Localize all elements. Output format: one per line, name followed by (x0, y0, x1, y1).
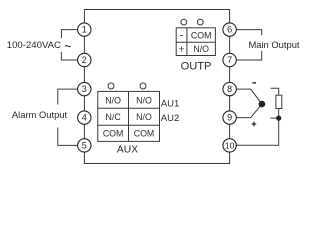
svg-text:N/O: N/O (136, 112, 152, 122)
resistor: RTD sensing element (276, 95, 282, 108)
svg-text:N/C: N/C (106, 112, 122, 122)
svg-text:Main Output: Main Output (248, 39, 299, 50)
terminal 4 (78, 111, 91, 124)
terminal 7 (223, 53, 236, 66)
table: AUX terminal block outline (98, 91, 160, 141)
wire: top jumper from terminal 1 to terminal 6 (84, 10, 229, 30)
svg-text:N/O: N/O (136, 95, 152, 105)
terminal 10 (223, 139, 236, 152)
terminal 9 (223, 111, 236, 124)
terminal 8 (223, 82, 236, 95)
label: - polarity at terminal 8 (252, 82, 256, 84)
wire: thermocouple lead from terminal 8 (236, 89, 262, 104)
svg-text:9: 9 (227, 113, 232, 123)
terminal 6 (223, 23, 236, 36)
svg-text:+: + (179, 45, 185, 56)
wire: bottom jumper from terminal 5 to terminal 10 (84, 145, 229, 163)
svg-text:7: 7 (227, 55, 232, 65)
indicator circle: AUX right (140, 83, 146, 89)
svg-text:N/O: N/O (105, 95, 121, 105)
svg-text:COM: COM (134, 129, 155, 139)
terminal 3 (78, 82, 91, 95)
svg-text:6: 6 (227, 25, 232, 35)
wire: RTD lower lead down to terminal 10 (236, 109, 279, 146)
wire: RTD middle lead stub (270, 117, 278, 119)
indicator circle: AUX left (108, 83, 114, 89)
svg-text:4: 4 (82, 113, 87, 123)
svg-text:COM: COM (191, 30, 212, 40)
svg-text:100-240VAC: 100-240VAC (7, 40, 61, 51)
wire: thermocouple lead from terminal 9 (236, 104, 262, 118)
indicator circle: OUTP right (197, 19, 203, 25)
svg-text:Alarm Output: Alarm Output (12, 109, 68, 120)
indicator circle: OUTP left (181, 19, 187, 25)
svg-text:OUTP: OUTP (181, 60, 212, 72)
label: + polarity at terminal 9 (252, 122, 257, 127)
svg-text:AUX: AUX (117, 145, 138, 156)
svg-text:AU1: AU1 (161, 99, 179, 110)
terminal 1 (78, 23, 91, 36)
svg-text:3: 3 (82, 84, 87, 94)
svg-text:1: 1 (82, 25, 87, 35)
svg-text:-: - (180, 30, 184, 42)
table: OUTP terminal block outline (176, 28, 215, 56)
bracket: Alarm Output to terminals 3 and 5 (58, 89, 78, 145)
wire: left terminal rail through terminals 1-5 (83, 30, 85, 146)
bracket: Main Output to terminals 6 and 7 (236, 30, 262, 60)
wire: RTD top lead stub (271, 88, 279, 95)
node: thermocouple junction (259, 101, 266, 108)
svg-text:AU2: AU2 (161, 113, 179, 124)
node: junction of RTD lower lead (276, 116, 281, 121)
svg-text:2: 2 (82, 55, 87, 65)
terminal 5 (78, 139, 91, 152)
svg-text:COM: COM (103, 129, 124, 139)
svg-text:8: 8 (227, 84, 232, 94)
wire: right terminal rail through terminals 6-10 (229, 30, 231, 146)
svg-text:10: 10 (225, 141, 235, 151)
svg-text:5: 5 (82, 141, 87, 151)
label: AC symbol ~ (65, 46, 70, 47)
terminal 2 (78, 53, 91, 66)
svg-text:N/O: N/O (193, 44, 209, 54)
bracket: 100-240VAC supply to terminals 1 and 2 (61, 30, 77, 60)
